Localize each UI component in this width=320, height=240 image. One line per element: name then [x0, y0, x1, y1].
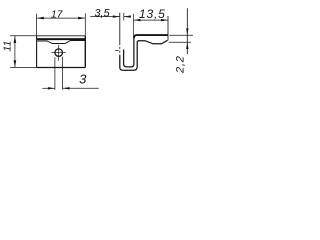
svg-text:17: 17 [51, 9, 64, 21]
svg-text:2,2: 2,2 [174, 55, 186, 74]
svg-text:11: 11 [1, 41, 13, 52]
svg-text:3: 3 [79, 72, 87, 87]
svg-text:3,5: 3,5 [94, 7, 110, 19]
svg-text:13,5: 13,5 [139, 7, 166, 21]
